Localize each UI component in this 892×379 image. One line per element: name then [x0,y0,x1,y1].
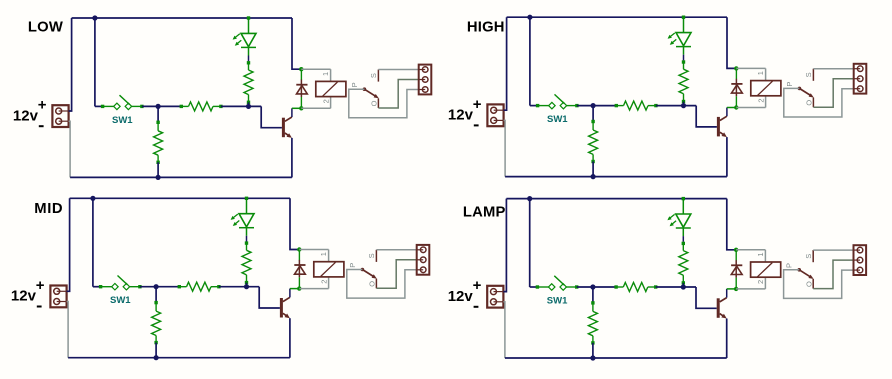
wire base jog [261,106,282,127]
svg-text:2: 2 [756,280,765,284]
junction row LED branch [244,284,249,289]
connector X1 12v input [487,104,503,126]
wire bottom rail [505,176,727,178]
svg-text:+: + [473,96,482,113]
connector X2 output [854,64,867,94]
resistor R1 base series [180,105,183,108]
wire row to base jog [656,286,696,288]
LED D1 [676,214,691,227]
junction row LED branch [246,104,251,109]
wire top rail [507,16,727,18]
wire 12v+ feed [504,17,507,110]
wire bottom rail [70,176,292,178]
svg-text:LOW: LOW [28,20,63,36]
wire O contact to X2 pin 2 [813,79,853,108]
LED D1 [676,33,691,46]
wire switch feed [94,18,96,106]
wire base jog [696,287,717,308]
svg-text:12v: 12v [13,107,39,124]
wire 12v+ feed [67,198,70,291]
svg-text:SW1: SW1 [110,295,131,306]
wire row to R1 [140,286,179,288]
junction bottom rail [156,175,161,180]
junction row LED branch [681,284,686,289]
circuit LOW [13,15,431,180]
svg-text:+: + [38,97,47,114]
wire O contact to X2 pin 2 [378,80,418,109]
connector X1 12v input [50,286,66,308]
wire base jog [696,106,717,127]
svg-text:MID: MID [34,201,63,217]
junction row LED branch [681,103,686,108]
svg-text:SW1: SW1 [547,295,568,306]
svg-text:HIGH: HIGH [467,19,505,35]
wire top rail [506,198,726,200]
junction bottom rail [591,174,596,179]
wire S contact to X2 pin 1 [813,68,853,70]
svg-text:SW1: SW1 [112,115,133,126]
wire 12v+ feed [69,18,72,111]
junction top rail / switch feed [90,196,95,201]
wire top rail [70,197,290,199]
connector X1 12v input [52,105,68,127]
junction top rail / switch feed [92,15,97,20]
node J2 [734,105,738,109]
relay contact K1 [798,87,802,91]
wire LED tap [247,16,250,19]
svg-text:2: 2 [319,280,328,284]
node J1 [297,247,301,251]
wire relay feed [292,18,301,69]
wire pole to X2 pin 3 [784,88,854,117]
relay coil K1 [765,68,767,80]
wire row to base jog [221,105,261,107]
resistor R2 pulldown [157,106,159,121]
wire relay feed [727,17,736,68]
circuit HIGH [448,15,866,180]
relay contact K1 [363,87,367,91]
svg-text:P: P [350,82,359,87]
LED D1 [241,33,256,46]
junction top rail / switch feed [527,196,532,201]
wire emitter [726,319,728,359]
resistor R1 base series [614,285,617,288]
wire S contact to X2 pin 1 [378,69,418,71]
wire O contact to X2 pin 2 [813,260,853,289]
wire row to base jog [219,286,259,288]
wire switch feed [529,199,531,287]
diode D2 flyback [298,250,300,261]
wire LED tap [682,197,685,200]
relay coil K1 [330,69,332,81]
svg-text:S: S [804,72,813,77]
svg-text:LAMP: LAMP [463,205,506,221]
relay contact K1 [797,268,801,272]
circuit MID [11,196,429,361]
resistor R3 LED series [247,61,250,64]
svg-text:2: 2 [756,98,765,102]
svg-text:S: S [804,254,813,259]
circuit LAMP [448,196,866,361]
node J2 [734,287,738,291]
connector X2 output [419,65,432,95]
wire 12v- feed [69,121,71,177]
wire J2 to coil pin 2 [736,288,765,290]
junction bottom rail [590,355,595,360]
node A junction [590,284,595,289]
svg-text:12v: 12v [448,288,474,305]
wire switch feed [529,17,531,105]
wire 12v- feed [503,302,505,358]
wire row to base jog [656,105,696,107]
node J2 [297,286,301,290]
wire switch feed [92,198,94,286]
wire pole to X2 pin 3 [347,270,417,299]
svg-text:1: 1 [756,252,765,256]
resistor R3 LED series [682,60,685,63]
node J2 [299,106,303,110]
connector X1 12v input [487,286,503,308]
wire J1 to coil pin 1 [736,249,765,251]
node J1 [734,66,738,70]
wire J1 to coil pin 1 [299,249,328,251]
relay contact K1 [361,268,365,272]
wire emitter [291,138,293,178]
resistor R2 pulldown [155,287,157,302]
switch SW1 [101,105,104,108]
svg-text:P: P [785,263,794,268]
svg-text:1: 1 [756,71,765,75]
wire LED tap [682,15,685,18]
wire emitter [726,137,728,177]
LED D1 [239,214,254,227]
svg-text:S: S [367,253,376,258]
resistor R1 base series [178,285,181,288]
connector X2 output [417,245,430,275]
wire 12v+ feed [503,199,506,292]
wire row to R1 [577,286,616,288]
relay coil K1 [764,250,766,262]
diode D2 flyback [300,69,302,80]
junction bottom rail [154,355,159,360]
svg-text:O: O [368,281,377,287]
wire relay feed [290,198,299,249]
diode D2 flyback [735,250,737,261]
node A junction [591,103,596,108]
transistor Q1 [717,117,720,137]
wire collector [291,108,293,117]
wire 12v- feed [67,302,69,358]
svg-text:SW1: SW1 [547,114,568,125]
svg-text:12v: 12v [11,288,37,305]
svg-text:O: O [370,100,379,106]
transistor Q1 [280,298,283,318]
svg-text:O: O [805,100,814,106]
switch SW1 [536,285,539,288]
node J1 [299,67,303,71]
wire top rail [72,17,292,19]
wire 12v- feed [504,120,506,176]
svg-text:1: 1 [319,252,328,256]
resistor R3 LED series [245,241,248,244]
svg-text:12v: 12v [448,107,474,124]
wire base jog [259,287,280,308]
wire relay feed [727,199,736,250]
resistor R2 pulldown [592,106,594,121]
wire J2 to coil pin 2 [299,288,328,290]
wire O contact to X2 pin 2 [376,260,416,289]
resistor R2 pulldown [592,287,594,302]
svg-text:2: 2 [321,99,330,103]
svg-text:P: P [348,263,357,268]
wire J2 to coil pin 2 [736,107,765,109]
connector X2 output [854,245,867,275]
diode D2 flyback [735,68,737,79]
wire collector [726,108,728,117]
wire collector [289,289,291,298]
wire pole to X2 pin 3 [784,270,854,299]
transistor Q1 [717,298,720,318]
node A junction [156,104,161,109]
wire J1 to coil pin 1 [301,68,330,70]
wire J1 to coil pin 1 [736,67,765,69]
svg-text:O: O [804,281,813,287]
relay coil K1 [328,250,330,262]
junction top rail / switch feed [527,15,532,20]
wire bottom rail [505,357,727,359]
transistor Q1 [282,118,285,138]
svg-text:+: + [36,277,45,294]
switch SW1 [536,104,539,107]
wire bottom rail [68,357,290,359]
wire S contact to X2 pin 1 [376,249,416,251]
wire LED tap [245,197,248,200]
wire J2 to coil pin 2 [301,107,330,109]
svg-text:1: 1 [321,72,330,76]
resistor R1 base series [615,104,618,107]
node J1 [734,248,738,252]
wire row to R1 [577,105,616,107]
resistor R3 LED series [682,242,685,245]
wire S contact to X2 pin 1 [813,249,853,251]
wire pole to X2 pin 3 [349,89,419,118]
svg-text:P: P [785,82,794,87]
switch SW1 [99,285,102,288]
wire row to R1 [142,105,181,107]
wire emitter [289,318,291,358]
wire collector [726,289,728,298]
svg-text:S: S [369,73,378,78]
svg-text:+: + [473,277,482,294]
node A junction [154,284,159,289]
